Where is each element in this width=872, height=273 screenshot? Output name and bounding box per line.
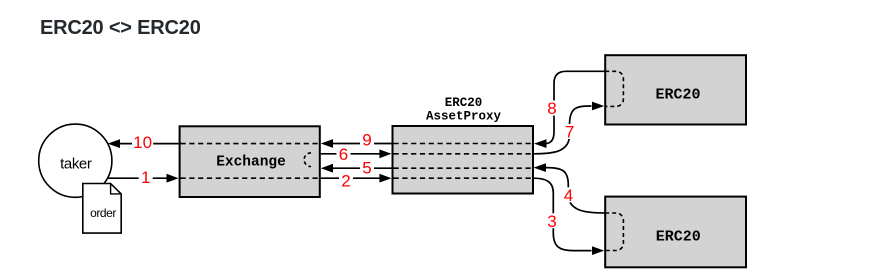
- svg-text:2: 2: [341, 171, 350, 190]
- svg-text:7: 7: [565, 123, 574, 142]
- svg-text:ERC20: ERC20: [656, 229, 701, 246]
- svg-text:8: 8: [547, 99, 556, 118]
- svg-text:1: 1: [141, 168, 150, 187]
- svg-text:4: 4: [564, 186, 573, 205]
- svg-text:ERC20: ERC20: [655, 87, 700, 104]
- svg-text:taker: taker: [60, 156, 92, 173]
- svg-text:9: 9: [362, 131, 371, 150]
- svg-text:ERC20: ERC20: [445, 96, 483, 110]
- svg-text:5: 5: [362, 158, 371, 177]
- svg-text:order: order: [90, 206, 116, 220]
- svg-text:3: 3: [547, 212, 556, 231]
- svg-text:ERC20 <> ERC20: ERC20 <> ERC20: [40, 17, 201, 39]
- svg-text:AssetProxy: AssetProxy: [426, 110, 502, 124]
- svg-text:Exchange: Exchange: [216, 154, 286, 170]
- svg-text:10: 10: [133, 133, 152, 152]
- svg-text:6: 6: [339, 145, 348, 164]
